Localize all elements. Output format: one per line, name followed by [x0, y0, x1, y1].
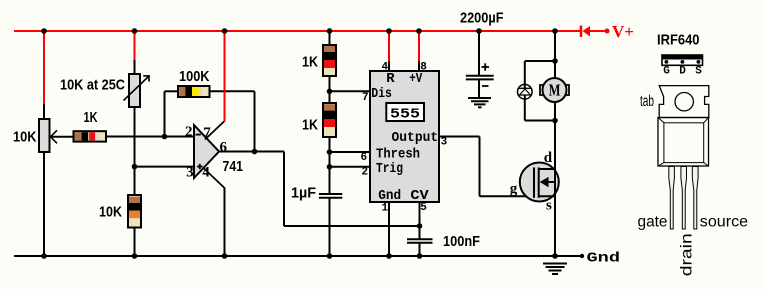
svg-text:10K at 25C: 10K at 25C: [60, 76, 125, 93]
svg-text:IRF640: IRF640: [657, 32, 700, 49]
svg-text:2: 2: [185, 124, 193, 140]
svg-text:1: 1: [382, 203, 389, 215]
svg-text:Dis: Dis: [371, 86, 392, 102]
svg-text:Trig: Trig: [376, 161, 403, 177]
svg-text:G: G: [663, 66, 670, 78]
svg-text:741: 741: [223, 158, 244, 175]
svg-text:10K: 10K: [13, 129, 37, 146]
svg-text:1K: 1K: [84, 109, 98, 126]
svg-text:tab: tab: [640, 93, 654, 110]
svg-text:d: d: [544, 150, 553, 166]
svg-text:1K: 1K: [302, 117, 318, 134]
svg-text:6: 6: [220, 139, 228, 155]
svg-text:S: S: [695, 66, 702, 78]
svg-text:3: 3: [441, 136, 448, 148]
svg-text:7: 7: [362, 92, 369, 104]
svg-text:drain: drain: [679, 233, 696, 276]
svg-text:Gnd: Gnd: [587, 251, 621, 267]
svg-text:6: 6: [361, 152, 368, 164]
svg-text:1µF: 1µF: [291, 185, 316, 202]
svg-text:7: 7: [203, 125, 211, 141]
svg-text:1K: 1K: [302, 54, 318, 71]
svg-text:s: s: [546, 198, 552, 214]
svg-text:5: 5: [420, 202, 427, 214]
svg-text:g: g: [510, 181, 518, 197]
svg-text:2200µF: 2200µF: [460, 10, 504, 27]
svg-text:100K: 100K: [179, 68, 210, 85]
svg-text:3: 3: [186, 164, 194, 180]
svg-text:4: 4: [202, 164, 210, 180]
svg-text:Output: Output: [392, 130, 439, 146]
svg-text:+V: +V: [409, 71, 422, 87]
svg-text:source: source: [700, 214, 748, 231]
svg-text:D: D: [679, 66, 686, 78]
svg-text:10K: 10K: [99, 204, 122, 221]
svg-text:V+: V+: [612, 22, 634, 41]
svg-text:M: M: [549, 81, 561, 100]
svg-text:2: 2: [362, 167, 369, 179]
svg-text:555: 555: [390, 107, 420, 123]
svg-text:100nF: 100nF: [443, 233, 480, 250]
svg-text:R: R: [386, 71, 395, 87]
svg-text:gate: gate: [638, 214, 668, 231]
